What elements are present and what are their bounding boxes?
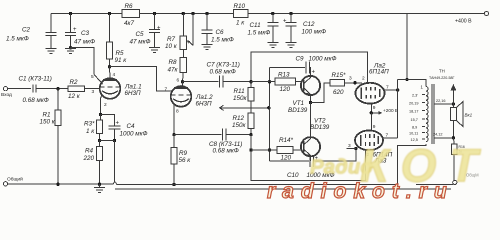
node: pin 6 anode junction La1.2 — [181, 80, 184, 83]
svg-text:R15*: R15* — [332, 72, 347, 79]
capacitor C8 — [209, 129, 242, 155]
svg-text:C2: C2 — [22, 27, 31, 34]
svg-text:56 к: 56 к — [179, 157, 192, 164]
svg-text:4: 4 — [113, 72, 116, 78]
node: speaker top junction — [452, 102, 455, 105]
node: VT1 emitter / VT2 collector junction — [309, 101, 312, 104]
svg-text:R7: R7 — [167, 36, 176, 43]
triode La1.1 (6N3P) — [100, 78, 142, 99]
resistor R2 — [68, 79, 100, 100]
resistor R8 — [168, 56, 187, 82]
resistor R3* — [84, 115, 103, 141]
svg-text:7: 7 — [386, 85, 389, 91]
svg-text:150 к: 150 к — [40, 119, 56, 126]
svg-text:22,16: 22,16 — [436, 99, 446, 103]
svg-text:R8: R8 — [169, 59, 178, 66]
node: C8 line / riser junction — [249, 133, 252, 136]
transistor VT1 (BD139) — [288, 76, 320, 114]
wire input to C1 — [8, 88, 31, 90]
svg-text:1.5 мкФ: 1.5 мкФ — [248, 30, 271, 37]
resistor R6 — [122, 3, 140, 27]
svg-text:120: 120 — [280, 86, 291, 93]
node: C1/R1/R2 junction — [56, 87, 59, 90]
svg-text:2,3': 2,3' — [412, 94, 418, 98]
terminal input Вход — [1, 87, 12, 98]
svg-text:3: 3 — [92, 89, 95, 95]
svg-text:0.68 мкФ: 0.68 мкФ — [210, 69, 236, 76]
wire emitter node to R15 — [311, 83, 331, 103]
svg-text:150к: 150к — [233, 95, 248, 102]
resistor R16 — [451, 138, 464, 180]
watermark РадиоКОТ — [310, 140, 491, 192]
wire R13 line — [251, 81, 275, 83]
resistor R14* — [277, 137, 304, 162]
svg-text:18,17: 18,17 — [409, 110, 419, 114]
svg-text:7: 7 — [386, 133, 389, 139]
svg-text:2: 2 — [104, 102, 107, 108]
resistor R1 — [40, 89, 62, 185]
capacitor C7 — [207, 62, 240, 88]
svg-text:47 мкФ: 47 мкФ — [74, 39, 95, 46]
node: rail/R5 junction — [108, 12, 111, 15]
svg-text:220: 220 — [83, 155, 95, 162]
wire C7 to R11 node — [223, 81, 251, 83]
svg-text:Вк1: Вк1 — [465, 113, 473, 118]
wire ground bus left — [8, 183, 114, 185]
node: riser / R13 wire junction — [268, 80, 271, 83]
pin 5 lead (La1.1) — [91, 74, 103, 84]
svg-text:Вход: Вход — [1, 92, 12, 98]
node: rail/C3 junction — [69, 12, 72, 15]
svg-text:6Н3П: 6Н3П — [196, 101, 213, 108]
node: C3 bottom junction — [69, 46, 72, 49]
capacitor C4 (electrolytic) — [101, 115, 148, 141]
svg-text:R11: R11 — [234, 88, 245, 95]
wire secondary tap 24.12 to speaker — [433, 133, 453, 138]
svg-text:15,7: 15,7 — [411, 118, 418, 122]
svg-text:1000 мкФ: 1000 мкФ — [309, 56, 337, 63]
svg-text:C1 (К73-11): C1 (К73-11) — [19, 76, 52, 83]
svg-text:20,19: 20,19 — [409, 102, 419, 106]
node: midpoint arrow / C9-C10 riser junction — [267, 106, 270, 109]
svg-text:VT1: VT1 — [293, 100, 305, 107]
node: drop / primary top junction — [405, 78, 408, 81]
resistor R4 — [83, 140, 103, 184]
svg-text:6Н3П: 6Н3П — [125, 90, 142, 97]
node: speaker bottom junction — [452, 136, 455, 139]
svg-text:ТН: ТН — [439, 69, 445, 74]
pin 4 anode lead (La1.1) — [110, 67, 116, 80]
capacitor C6 — [202, 14, 234, 45]
wire primary top — [398, 80, 426, 87]
svg-text:R6: R6 — [125, 3, 134, 10]
node: rail/C11 junction — [271, 12, 274, 15]
capacitor C9 (electrolytic) — [270, 56, 337, 76]
wire +400V top rail — [51, 13, 485, 15]
wire pin6 to C7 — [183, 81, 219, 83]
node: R3/R4 junction — [98, 139, 101, 142]
node: R15 / La2 grid junction — [353, 81, 356, 84]
wire +400 drop to transformer — [406, 14, 408, 80]
svg-text:4к7: 4к7 — [124, 20, 134, 27]
pin 7 anode wire (La3) — [382, 133, 398, 139]
svg-text:0.68 мкФ: 0.68 мкФ — [23, 97, 49, 104]
wire anode bus — [397, 80, 399, 139]
wire bus jog — [113, 182, 116, 185]
svg-text:C5: C5 — [136, 31, 145, 38]
svg-text:R3*: R3* — [84, 121, 95, 128]
resistor R9 — [171, 135, 191, 185]
pin 9 screen lead (La2) — [371, 103, 376, 112]
wire divider midpoint arrow — [220, 105, 269, 110]
capacitor C3 (electrolytic) — [65, 14, 95, 48]
transformer left taps — [409, 94, 425, 143]
wire R7 wiper — [187, 14, 193, 46]
svg-text:1 к: 1 к — [86, 128, 95, 135]
trimmer R7 — [165, 14, 187, 57]
wire riser R12 to R14 line and bottom loop to La3 cathode pin 2 — [251, 135, 365, 181]
svg-text:+: + — [157, 26, 161, 32]
svg-text:6: 6 — [177, 78, 180, 84]
svg-text:1.5 мкФ: 1.5 мкФ — [6, 36, 29, 43]
svg-text:47 мкФ: 47 мкФ — [130, 39, 151, 46]
wire bus to R16 terminal — [416, 184, 453, 186]
svg-text:Общий: Общий — [7, 176, 23, 183]
svg-text:C4: C4 — [127, 123, 136, 130]
wire cathode node to C8 — [174, 134, 222, 136]
node: R9 bottom on bus — [172, 183, 175, 186]
wire return bus lower — [115, 188, 451, 190]
svg-text:8: 8 — [176, 109, 179, 115]
svg-text:3: 3 — [348, 143, 351, 149]
node: C4 bottom junction — [113, 139, 116, 142]
node: rail/R7 wiper junction — [191, 12, 194, 15]
svg-text:12 к: 12 к — [68, 93, 81, 100]
svg-text:47к: 47к — [168, 67, 179, 74]
svg-text:radiokot.ru: radiokot.ru — [267, 180, 454, 203]
svg-text:150к: 150к — [232, 122, 247, 129]
wire +200V arrow — [371, 108, 398, 115]
svg-text:C3: C3 — [81, 30, 90, 37]
pin 2 cathode lead (La1.1) — [101, 96, 108, 115]
svg-text:2: 2 — [362, 76, 365, 82]
resistor R12 — [232, 113, 254, 134]
svg-text:C10: C10 — [287, 172, 299, 179]
svg-text:BD139: BD139 — [288, 107, 308, 114]
ground (C12) — [286, 43, 297, 48]
resistor R13 — [275, 72, 304, 94]
svg-text:91 к: 91 к — [115, 57, 128, 64]
svg-text:R13: R13 — [278, 72, 290, 79]
svg-text:ТАН49-220-58Г: ТАН49-220-58Г — [429, 76, 454, 80]
svg-text:0.68 мкФ: 0.68 мкФ — [213, 148, 239, 155]
capacitor C11 — [248, 14, 279, 43]
svg-text:10,11: 10,11 — [409, 132, 418, 136]
svg-text:+200 В: +200 В — [383, 108, 398, 113]
wire left riser / top bootstrap line to La2 pin 2 — [251, 52, 368, 83]
svg-text:R4: R4 — [85, 148, 94, 155]
svg-text:R14*: R14* — [279, 137, 294, 144]
svg-text:R10: R10 — [234, 3, 246, 10]
node: rail/C6 junction — [205, 12, 208, 15]
svg-text:3: 3 — [349, 76, 352, 82]
wire primary bottom return — [398, 144, 426, 185]
svg-text:C7 (К73-11): C7 (К73-11) — [207, 62, 240, 69]
svg-text:620: 620 — [333, 89, 344, 96]
resistor R10 — [234, 3, 249, 27]
node: cathode/R9/C8 junction — [172, 133, 175, 136]
ground (C6) — [202, 45, 213, 50]
svg-text:R1: R1 — [43, 112, 51, 119]
svg-text:6П14П: 6П14П — [369, 69, 389, 76]
svg-text:1 к: 1 к — [236, 20, 245, 27]
resistor R5 — [107, 14, 128, 67]
resistor R11 — [233, 82, 254, 114]
wire VT2 collector — [310, 103, 312, 138]
svg-text:24,12: 24,12 — [433, 133, 443, 137]
svg-text:+: + — [116, 121, 120, 127]
svg-text:+: + — [312, 70, 316, 76]
svg-text:C6: C6 — [216, 29, 225, 36]
svg-text:R5: R5 — [116, 50, 125, 57]
capacitor C5 (electrolytic) — [130, 14, 162, 48]
svg-text:9: 9 — [373, 124, 376, 130]
transistor VT2 (BD139) — [301, 118, 330, 161]
capacitor C2 — [6, 14, 57, 49]
svg-text:C9: C9 — [296, 56, 305, 63]
capacitor C10 (electrolytic) — [270, 149, 356, 179]
ground (C11) — [267, 43, 278, 48]
svg-text:+: + — [73, 27, 77, 33]
wire C1 to R2 — [36, 88, 68, 90]
terminal +400 B — [455, 11, 489, 24]
node: riser / R14 wire junction — [268, 148, 271, 151]
node: R1 bottom on bus — [56, 183, 59, 186]
svg-text:C12: C12 — [303, 21, 315, 28]
node: La3 cathode junction — [354, 147, 357, 150]
svg-text:+400 В: +400 В — [455, 19, 472, 25]
triode La1.2 (6N3P) — [171, 86, 213, 107]
node: rail/C12 junction — [289, 12, 292, 15]
svg-text:R9: R9 — [179, 150, 188, 157]
svg-text:7: 7 — [165, 87, 168, 93]
svg-text:R2: R2 — [70, 79, 79, 86]
node: rail/C5 junction — [153, 12, 156, 15]
wire C4 bottom to ground bus — [114, 141, 116, 183]
svg-text:+: + — [283, 19, 287, 25]
node: R4 bottom on bus — [98, 183, 101, 186]
ground (bus) — [94, 184, 105, 192]
svg-text:ОбщМ: ОбщМ — [466, 173, 479, 178]
pin 8 cathode lead (La1.2) — [174, 104, 179, 135]
capacitor C12 (electrolytic) — [283, 14, 326, 43]
pentode La3 (6P14P) — [355, 130, 393, 164]
wire arrow up from speaker top — [451, 84, 457, 104]
svg-text:8,9: 8,9 — [412, 126, 417, 130]
pin 7 anode wire (La2) — [384, 85, 398, 91]
node: C7 line / riser junction — [249, 80, 252, 83]
svg-text:R12: R12 — [233, 115, 245, 122]
svg-text:BD139: BD139 — [310, 124, 330, 131]
terminal Общий — [3, 176, 23, 186]
node: riser / R14 junction — [249, 148, 252, 151]
wire C8 to R12 node — [226, 134, 251, 136]
wire C9/C10 riser — [269, 68, 271, 161]
svg-text:1.5 мкФ: 1.5 мкФ — [211, 37, 234, 44]
node: R5 bottom / anode junction — [108, 65, 111, 68]
pin 9 screen lead (La3) — [371, 113, 376, 131]
pin 6 anode lead (La1.2) — [177, 78, 183, 89]
ground (C2) — [46, 49, 57, 54]
node: screens junction — [370, 111, 373, 114]
wire anode La1.1 to grid La1.2 — [110, 67, 173, 91]
wire secondary tap 22.16 to speaker — [434, 99, 453, 104]
node: anode bus / La2 junction — [396, 88, 399, 91]
resistor R15* — [330, 72, 362, 96]
wire R3 bottom to C4 bottom — [100, 140, 115, 142]
speaker Vk1 — [450, 102, 472, 138]
ground (C5) — [149, 48, 160, 53]
transformer TN winding — [421, 69, 455, 145]
svg-text:C11: C11 — [250, 22, 261, 29]
svg-text:5: 5 — [91, 74, 94, 80]
wire La3 grid stub — [347, 148, 356, 150]
pentode La2 (6P14P) — [355, 63, 389, 104]
terminal output common — [453, 180, 457, 184]
svg-text:100 мкФ: 100 мкФ — [302, 29, 327, 36]
node: cathode junction La1.1 — [99, 113, 102, 116]
wire C3 bottom to tube La1.1 pin5 — [71, 48, 95, 75]
capacitor C1 — [19, 76, 52, 105]
svg-text:1000 мкФ: 1000 мкФ — [120, 130, 148, 137]
ground (C3) — [65, 48, 76, 54]
svg-text:10 к: 10 к — [165, 43, 178, 50]
svg-text:9: 9 — [373, 105, 376, 111]
wire R14 line — [251, 149, 277, 151]
wire return bus upper — [117, 184, 398, 186]
node: rail/R7 junction — [182, 12, 185, 15]
